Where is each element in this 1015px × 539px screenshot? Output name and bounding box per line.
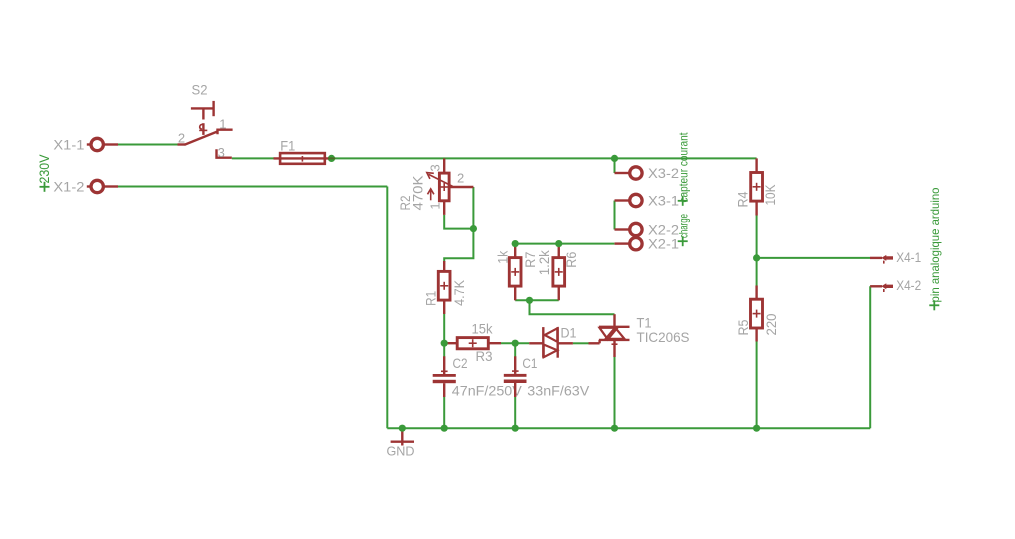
svg-text:X1-2: X1-2 [53,179,84,195]
wire R5 bottom to bus [756,342,758,429]
svg-text:R3: R3 [476,348,493,364]
junction bus T1 [611,425,618,432]
junction bus GND [399,425,406,432]
wire X1-1 to S2 pin2 [118,144,178,146]
svg-text:C1: C1 [522,355,537,371]
junction top net X3-2 branch [611,155,618,162]
junction R3 C1 D1 node [512,340,519,347]
capacitor C1 [504,356,527,397]
junction bus C1 [512,425,519,432]
wire gate node to T1 MT2 [530,300,615,314]
wire R3 right to node [501,342,529,344]
wire S2 pin3 to F1 [232,157,275,159]
wire junction drop to X3-2 [614,158,616,173]
resistor R7 [509,244,521,301]
switch S2 [178,101,233,158]
net label charge [677,214,691,246]
svg-text:33nF/63V: 33nF/63V [527,382,590,398]
connector X2-2 [615,223,643,235]
capacitor C2 [433,356,456,397]
potentiometer R2 [427,158,474,215]
svg-text:pin analogique arduino: pin analogique arduino [928,187,942,302]
svg-text:1: 1 [219,116,226,131]
svg-text:R5: R5 [735,319,751,335]
svg-text:1: 1 [428,202,443,209]
svg-text:1k: 1k [494,250,510,264]
net label capteur courant [677,132,691,206]
connector X4-2 arrow [870,283,893,292]
wire node to R5 top [756,258,758,286]
svg-text:R4: R4 [735,191,751,207]
svg-text:R6: R6 [563,252,579,268]
svg-text:3: 3 [218,145,225,160]
wire T1 MT1 to bus [614,357,616,428]
resistor R4 [751,158,763,215]
connector X2-1 [615,238,643,250]
junction R7 top [512,240,519,247]
resistor R5 [751,286,763,342]
junction R6 top [555,240,562,247]
net label pin analogique arduino [928,187,942,310]
svg-text:220: 220 [763,313,779,335]
wire X1-2 net vertical drop [386,187,388,429]
junction bus R5 [753,425,760,432]
junction R2 node [470,225,477,232]
wire D1 to T1 gate [573,342,589,344]
junction R4 R5 X4-1 node [753,254,760,261]
junction F1 right [328,155,335,162]
diac D1 [529,327,573,358]
svg-text:15k: 15k [472,321,494,337]
svg-text:47nF/250V: 47nF/250V [452,382,523,398]
wire X1-2 net left run [118,186,387,188]
wire R4 bottom to node [756,216,758,258]
wire C1 bottom to bus [514,397,516,428]
wire R7 R6 bottoms [515,299,559,301]
resistor R6 [553,244,565,301]
wire node to C1 [514,343,516,356]
svg-text:TIC206S: TIC206S [637,329,690,345]
svg-text:charge: charge [677,214,691,238]
svg-text:3: 3 [428,164,443,171]
junction R7 R6 bottom node [526,297,533,304]
connector X4-1 arrow [870,255,893,264]
wire ground bus [387,427,870,429]
fuse F1 [274,153,332,164]
svg-text:R1: R1 [422,291,438,306]
svg-text:F1: F1 [280,138,295,154]
wire X3-1 to X2-2 [614,201,616,230]
connector X3-1 [615,194,643,206]
connector X3-2 [615,167,643,179]
svg-text:X2-1: X2-1 [648,236,679,252]
wire R1 bottom to node [443,314,445,343]
svg-text:4.7K: 4.7K [451,279,467,306]
wire X2-1 to R7 R6 tops [515,243,614,245]
svg-text:X1-1: X1-1 [53,137,84,153]
junction bus C2 [441,425,448,432]
svg-text:10K: 10K [762,184,778,206]
svg-text:C2: C2 [453,355,468,371]
ground symbol GND [391,428,414,445]
svg-text:capteur courant: capteur courant [677,132,691,203]
svg-text:GND: GND [387,445,415,459]
svg-text:470K: 470K [410,175,426,211]
resistor R3 [444,338,501,349]
net label 230V [37,155,52,192]
svg-text:D1: D1 [561,325,577,341]
svg-text:X4-2: X4-2 [896,277,921,293]
junction R1 R3 C2 node [441,340,448,347]
svg-text:230V: 230V [37,155,52,184]
wire X4-2 vertical riser [869,286,871,428]
wire R2 pin2 down [472,187,474,229]
wire C2 bottom to bus [443,397,445,428]
wire top net F1 to R4 [332,157,757,159]
svg-text:X3-1: X3-1 [648,193,679,209]
svg-text:2: 2 [178,131,185,146]
resistor R1 [438,261,450,314]
triac T1 [589,314,630,357]
svg-text:1.2k: 1.2k [536,249,552,275]
wire R2 node to R1 top [444,229,473,262]
svg-text:2: 2 [457,171,464,186]
wire R2 pin1 down [444,215,473,229]
connector X1-1 [87,138,118,150]
connector X1-2 [87,180,118,192]
wire node to X4-1 [757,257,870,259]
wire X4-2 stub run [869,285,872,287]
svg-text:X4-1: X4-1 [896,249,921,265]
svg-text:S2: S2 [192,82,208,98]
svg-text:X3-2: X3-2 [648,165,679,181]
wire node to C2 [443,343,445,356]
